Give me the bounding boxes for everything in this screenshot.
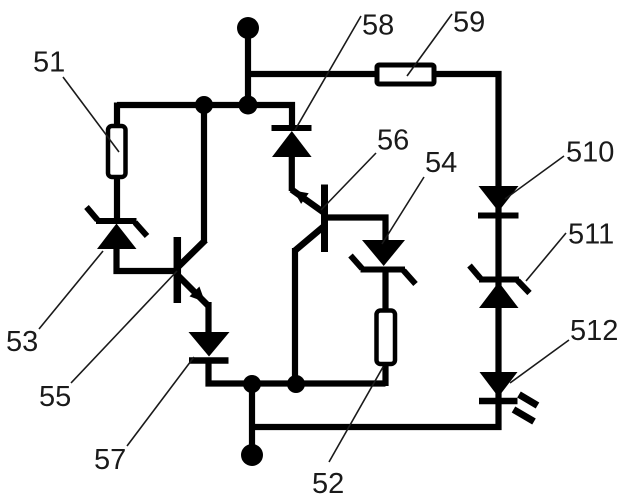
svg-text:56: 56 <box>377 125 409 157</box>
leader line 52 <box>329 367 383 462</box>
wire Q55 collector vertical <box>201 105 207 243</box>
resistor 59 <box>377 65 434 84</box>
svg-text:57: 57 <box>94 444 126 476</box>
svg-text:51: 51 <box>33 47 65 79</box>
wire R51 vertical branch <box>114 103 120 222</box>
leader line 56 <box>321 153 376 210</box>
leader line 55 <box>71 271 177 383</box>
diode 58 <box>272 128 312 157</box>
node junction A (204,105) <box>195 96 213 114</box>
wire Q55 emitter vertical to D57 <box>205 302 211 334</box>
node bottom terminal <box>241 444 263 466</box>
diode 512 <box>479 372 538 422</box>
node top terminal <box>237 17 259 39</box>
diode 57 <box>189 332 230 361</box>
leader line 57 <box>127 357 194 446</box>
svg-text:510: 510 <box>566 137 614 169</box>
svg-text:59: 59 <box>453 7 485 39</box>
wire top terminal to junction <box>245 28 251 105</box>
node junction C (252,384) <box>243 375 261 393</box>
wire D57 bottom to bottom node rail <box>209 361 386 384</box>
svg-text:52: 52 <box>312 468 344 496</box>
zener diode 511 <box>470 266 530 309</box>
resistor 51 <box>108 126 126 177</box>
zener diode 53 <box>87 207 148 249</box>
leader line 511 <box>526 233 566 281</box>
leader line 510 <box>505 156 564 199</box>
wire Q56 emitter vertical to D58 <box>289 155 295 191</box>
svg-text:512: 512 <box>570 315 618 347</box>
transistor Q55 <box>177 237 208 306</box>
svg-text:511: 511 <box>568 219 614 251</box>
leader line 58 <box>295 16 361 130</box>
wire R52 vertical branch up to Z54 <box>382 268 388 386</box>
leader line 59 <box>407 14 452 76</box>
wire Z53 bottom to Q55 base <box>117 247 176 271</box>
svg-text:55: 55 <box>39 381 71 413</box>
svg-text:53: 53 <box>6 326 38 358</box>
wire bottom node down to bottom terminal <box>249 384 255 456</box>
diode 510 <box>478 186 519 216</box>
wire Q56 collector vertical to bottom node <box>292 248 298 384</box>
wire top rail through R59 and right rail down to bottom rail <box>248 74 499 427</box>
wire y=105 horizontal from R51 corner to D58 drop <box>117 105 292 128</box>
leader line 54 <box>382 177 424 244</box>
zener diode 54 <box>351 240 416 284</box>
wire Z54 top to Q56 base <box>327 218 386 244</box>
svg-text:54: 54 <box>425 147 457 179</box>
resistor 52 <box>377 311 396 365</box>
leader line 51 <box>63 77 119 152</box>
node junction B (248,105) <box>239 96 258 115</box>
leader line 512 <box>510 340 569 383</box>
node junction D (296,384) <box>287 375 305 393</box>
svg-text:58: 58 <box>362 10 394 42</box>
transistor Q56 <box>292 185 325 253</box>
leader line 53 <box>39 251 103 329</box>
